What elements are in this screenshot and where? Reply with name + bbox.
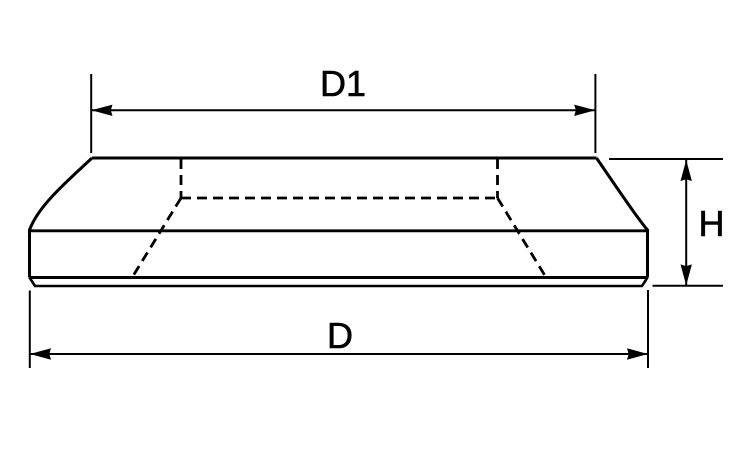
svg-text:H: H (699, 203, 725, 244)
washer left rim edge (28, 229, 31, 278)
H dimension line (685, 160, 687, 285)
D1 right arrowhead (574, 105, 595, 116)
washer left flare curve (30, 158, 93, 230)
D1 dimension line (92, 109, 595, 111)
H top arrowhead (681, 160, 692, 181)
svg-text:D: D (327, 315, 353, 356)
label D1 (320, 63, 366, 104)
D dimension line (30, 353, 648, 355)
washer top edge (92, 157, 597, 160)
label D (327, 315, 353, 356)
washer right rim edge (646, 229, 649, 278)
hidden hole shoulder line (181, 197, 498, 200)
washer right flare curve (597, 158, 648, 230)
D right extension line (647, 290, 649, 368)
H bottom arrowhead (681, 264, 692, 285)
D left arrowhead (30, 348, 51, 359)
H bottom extension line (653, 285, 724, 287)
hidden hole right top edge (496, 159, 499, 198)
D1 left arrowhead (92, 105, 113, 116)
H top extension line (609, 158, 723, 160)
washer bottom chamfer band (30, 278, 648, 287)
hidden hole left taper (132, 198, 182, 279)
label H (699, 203, 725, 244)
D left extension line (29, 291, 31, 369)
D right arrowhead (627, 348, 648, 359)
washer rim top line (30, 229, 648, 232)
washer rim bottom line (30, 276, 648, 279)
D1 right extension line (594, 74, 596, 153)
hidden hole right taper (498, 198, 548, 279)
D1 left extension line (90, 74, 92, 153)
svg-text:D1: D1 (320, 63, 366, 104)
hidden hole left top edge (180, 159, 183, 198)
